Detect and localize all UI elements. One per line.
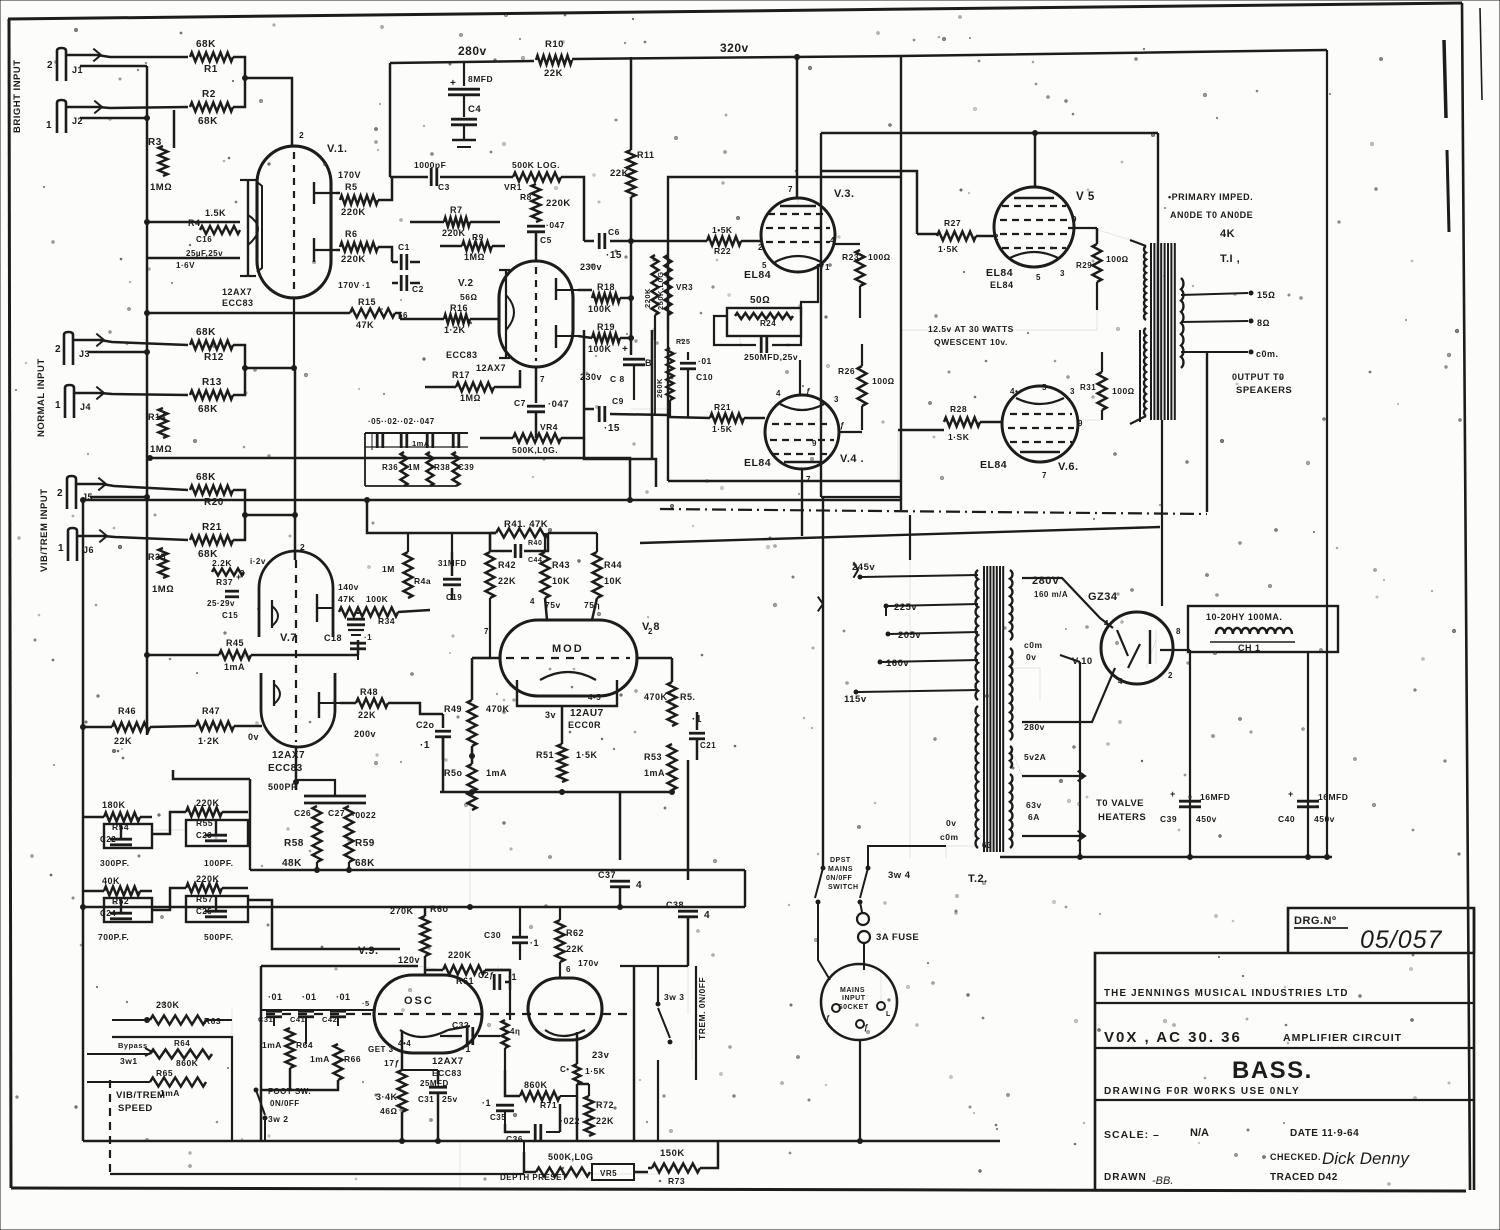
box speed control bbox=[112, 1037, 232, 1141]
svg-text:4: 4 bbox=[1104, 619, 1109, 628]
svg-text:1·5K: 1·5K bbox=[585, 1066, 606, 1076]
tube V8 envelope bbox=[500, 620, 637, 696]
svg-text:8MFD: 8MFD bbox=[468, 74, 493, 84]
svg-text:5: 5 bbox=[1036, 273, 1041, 282]
wire hum pot left bbox=[714, 316, 742, 345]
wire v10 out bbox=[1160, 649, 1190, 651]
wire bus y907 bbox=[83, 906, 745, 909]
svg-text:J6: J6 bbox=[83, 545, 94, 555]
svg-text:260K: 260K bbox=[655, 378, 664, 398]
svg-text:VR5: VR5 bbox=[600, 1169, 617, 1178]
resistor R60 270K bbox=[424, 907, 427, 916]
svg-text:5: 5 bbox=[1042, 383, 1047, 392]
svg-text:2: 2 bbox=[300, 542, 305, 552]
svg-text:1mA: 1mA bbox=[412, 439, 430, 448]
svg-text:ECC83: ECC83 bbox=[446, 350, 478, 360]
svg-text:1: 1 bbox=[58, 543, 64, 554]
svg-text:·05··02··02··047: ·05··02··02··047 bbox=[368, 417, 435, 426]
wire bus y855 bbox=[1000, 856, 1332, 858]
svg-text:R47: R47 bbox=[202, 706, 220, 716]
transformer T1 primary coil bbox=[1144, 246, 1146, 320]
wire J3 tip bbox=[74, 340, 188, 345]
resistor R44 10K bbox=[593, 552, 602, 598]
svg-text:230K: 230K bbox=[156, 1000, 180, 1010]
wire left rail x83 bbox=[82, 500, 85, 1141]
svg-text:+: + bbox=[1170, 789, 1176, 799]
tube V1 grid bars bbox=[313, 182, 315, 204]
resistor R51 1.5K bbox=[561, 706, 564, 744]
wire V7 anode row bbox=[147, 654, 219, 657]
svg-text:7: 7 bbox=[1042, 471, 1047, 480]
wire heater bottom bbox=[1022, 835, 1085, 837]
svg-text:·047: ·047 bbox=[548, 399, 569, 410]
svg-text:R10: R10 bbox=[545, 39, 564, 50]
svg-text:R72: R72 bbox=[596, 1100, 614, 1110]
svg-text:C40: C40 bbox=[1278, 814, 1295, 824]
tube V7 cathode bbox=[271, 600, 273, 628]
svg-text:C36: C36 bbox=[506, 1134, 523, 1144]
wire tap 225V bbox=[888, 604, 978, 606]
svg-text:V.4 .: V.4 . bbox=[840, 453, 864, 465]
wire HT to x1327 bbox=[1326, 50, 1328, 855]
svg-text:100Ω: 100Ω bbox=[1106, 254, 1129, 264]
capacitor C32 .1 bbox=[448, 1037, 462, 1039]
svg-text:DRAWN: DRAWN bbox=[1104, 1172, 1147, 1183]
svg-text:220K: 220K bbox=[448, 950, 472, 960]
jack J2 bbox=[57, 100, 66, 133]
wire sw4 to 0v bbox=[868, 846, 946, 868]
svg-text:R46: R46 bbox=[118, 706, 136, 716]
svg-text:280v: 280v bbox=[458, 44, 487, 58]
wire v2 plate upper bbox=[578, 289, 592, 292]
resistor R72 22K bbox=[585, 1096, 594, 1136]
svg-text:HEATERS: HEATERS bbox=[1098, 812, 1146, 823]
svg-text:TREM. 0N/0FF: TREM. 0N/0FF bbox=[697, 977, 707, 1040]
resistor R66 1M bbox=[334, 1044, 343, 1080]
svg-text:12AX7: 12AX7 bbox=[272, 750, 305, 761]
wire fuse to plug bbox=[863, 962, 865, 970]
wire choke out right bbox=[1307, 652, 1309, 855]
svg-text:R59: R59 bbox=[355, 838, 375, 849]
svg-text:68K: 68K bbox=[355, 858, 375, 869]
capacitor C39 16MFD bbox=[1179, 800, 1201, 803]
svg-text:V.6.: V.6. bbox=[1058, 461, 1079, 473]
wire footswitch bbox=[264, 1120, 266, 1141]
svg-text:·01: ·01 bbox=[302, 992, 317, 1002]
svg-text:100K: 100K bbox=[588, 304, 612, 314]
svg-text:R21: R21 bbox=[202, 522, 222, 533]
wire grid riser bbox=[357, 640, 360, 655]
tube V9b envelope bbox=[528, 978, 602, 1040]
wire V7 grid feed bbox=[245, 367, 295, 370]
svg-text:R58: R58 bbox=[284, 838, 304, 849]
svg-text:1·6V: 1·6V bbox=[176, 261, 195, 270]
svg-text:C16: C16 bbox=[196, 235, 212, 244]
resistor R31 100 bbox=[1078, 419, 1100, 421]
svg-text:500K LOG.: 500K LOG. bbox=[512, 160, 560, 170]
svg-text:VIB/TREM INPUT: VIB/TREM INPUT bbox=[39, 488, 50, 572]
svg-text:200v: 200v bbox=[354, 729, 376, 739]
wire depth row bbox=[523, 1141, 525, 1152]
svg-text:·15: ·15 bbox=[604, 423, 620, 434]
svg-text:4: 4 bbox=[1118, 677, 1123, 686]
tube V4 EL84 bbox=[765, 395, 839, 469]
tube V9a envelope OSC bbox=[374, 975, 482, 1053]
svg-text:700P.F.: 700P.F. bbox=[98, 932, 129, 942]
svg-text:R3: R3 bbox=[148, 137, 162, 148]
svg-text:C35: C35 bbox=[490, 1113, 506, 1122]
wire rail A y458 bbox=[150, 458, 630, 500]
svg-text:22K: 22K bbox=[498, 576, 516, 586]
wire T1 sec tap2 bbox=[1181, 321, 1248, 322]
svg-text:R7: R7 bbox=[450, 205, 463, 215]
wire V8 bottom bus bbox=[440, 791, 672, 794]
wire y497 stub bbox=[821, 496, 901, 498]
resistor R49 470K bbox=[468, 700, 477, 746]
resistor R12 68K bbox=[190, 341, 233, 350]
title row line 1 bbox=[1095, 1002, 1474, 1004]
svg-text:50Ω: 50Ω bbox=[750, 295, 770, 306]
svg-text:R13: R13 bbox=[202, 377, 222, 388]
tube V7 center dashed bbox=[295, 560, 297, 742]
tube V1 envelope bbox=[257, 146, 331, 298]
wire sw4 left down bbox=[818, 902, 830, 980]
svg-text:C41: C41 bbox=[290, 1015, 305, 1024]
svg-text:R65: R65 bbox=[156, 1068, 173, 1078]
wire tone right drop bbox=[248, 829, 250, 832]
svg-text:C30: C30 bbox=[484, 930, 501, 940]
svg-text:3·4K: 3·4K bbox=[376, 1092, 398, 1102]
resistor R21 1.5K bbox=[668, 417, 710, 418]
wire R61 leads bbox=[425, 969, 443, 972]
svg-text:2: 2 bbox=[47, 60, 53, 71]
svg-text:4: 4 bbox=[636, 880, 642, 891]
wire r67 bottom bbox=[401, 1112, 404, 1141]
svg-text:C42: C42 bbox=[322, 1015, 337, 1024]
svg-text:3w 3: 3w 3 bbox=[664, 992, 684, 1002]
svg-text:c0m: c0m bbox=[1024, 640, 1043, 650]
svg-text:C21: C21 bbox=[700, 741, 716, 750]
wire splitter stubs bbox=[407, 533, 409, 552]
wire J2 tip bbox=[67, 107, 188, 108]
svg-text:3w 2: 3w 2 bbox=[268, 1114, 288, 1124]
svg-text:230v: 230v bbox=[580, 372, 602, 382]
svg-text:·01: ·01 bbox=[698, 356, 712, 366]
svg-text:c0m: c0m bbox=[940, 832, 959, 842]
wire R16 bbox=[400, 318, 444, 321]
resistor RB2 1M bbox=[427, 452, 434, 486]
svg-text:47K: 47K bbox=[338, 594, 355, 604]
resistor R70 1.5K bbox=[574, 1064, 581, 1084]
svg-text:250K,L0G: 250K,L0G bbox=[656, 271, 665, 310]
wire C26 C27 top bbox=[296, 780, 335, 796]
wire trem col x696 bbox=[691, 1040, 693, 1060]
svg-text:2.2K: 2.2K bbox=[212, 558, 232, 568]
svg-text:C31: C31 bbox=[258, 1015, 273, 1024]
resistor R13 68K bbox=[190, 391, 233, 400]
svg-text:SPEAKERS: SPEAKERS bbox=[1236, 385, 1292, 396]
svg-text:0N/0FF: 0N/0FF bbox=[270, 1099, 300, 1108]
tube V7 grid bar lower bbox=[318, 692, 320, 718]
svg-text:R36: R36 bbox=[382, 463, 398, 472]
svg-text:C39: C39 bbox=[1160, 814, 1177, 824]
svg-text:CHECKED.: CHECKED. bbox=[1270, 1152, 1321, 1162]
svg-text:68K: 68K bbox=[198, 404, 218, 415]
svg-text:46Ω: 46Ω bbox=[380, 1106, 397, 1116]
svg-text:V.10: V.10 bbox=[1072, 656, 1093, 667]
resistor R3 1M bbox=[159, 146, 168, 176]
choke CH1 coil bbox=[1216, 628, 1292, 634]
svg-text:1·2K: 1·2K bbox=[198, 736, 220, 746]
transformer T2 sec coil HT bbox=[1010, 570, 1012, 640]
svg-text:C18: C18 bbox=[324, 633, 342, 643]
svg-text:R43: R43 bbox=[552, 560, 570, 570]
svg-text:ƒ: ƒ bbox=[840, 421, 845, 430]
wire y655 to tube bbox=[295, 655, 297, 673]
wire V3 top pin bbox=[797, 198, 799, 206]
svg-text:3v: 3v bbox=[545, 710, 556, 720]
svg-text:860K: 860K bbox=[176, 1058, 199, 1068]
svg-text:7: 7 bbox=[484, 627, 489, 636]
svg-text:GZ34: GZ34 bbox=[1088, 591, 1118, 603]
wire r72 col bbox=[576, 1084, 579, 1141]
svg-text:V.7: V.7 bbox=[280, 632, 297, 644]
resistor R27 1.5K bbox=[917, 233, 937, 236]
capacitor C9 .15 bbox=[584, 408, 594, 411]
svg-text:C27: C27 bbox=[328, 808, 345, 818]
svg-text:500K,L0G.: 500K,L0G. bbox=[512, 445, 558, 455]
svg-text:0v: 0v bbox=[248, 732, 259, 742]
resistor R46 22K bbox=[112, 723, 150, 732]
svg-text:500PF: 500PF bbox=[268, 782, 297, 792]
wire screen bus v5 bbox=[901, 310, 1097, 330]
capacitor C15 25MFD bbox=[225, 590, 239, 593]
svg-text:Bypass: Bypass bbox=[118, 1041, 148, 1050]
svg-text:1·2K: 1·2K bbox=[444, 325, 466, 335]
capacitor C25 500PF bbox=[186, 896, 248, 922]
resistor R16 1.2K bbox=[444, 315, 470, 324]
resistor R25 260K bbox=[651, 330, 654, 460]
svg-text:R38: R38 bbox=[434, 463, 450, 472]
svg-text:·01: ·01 bbox=[336, 992, 351, 1002]
capacitor C40 16MFD bbox=[1297, 800, 1319, 803]
svg-text:DPST: DPST bbox=[830, 857, 851, 864]
svg-text:R14: R14 bbox=[148, 412, 166, 422]
capacitor C1 bbox=[400, 254, 403, 270]
svg-text:0v: 0v bbox=[1026, 652, 1036, 662]
svg-text:R9: R9 bbox=[472, 232, 484, 242]
svg-text:220K: 220K bbox=[643, 288, 652, 308]
svg-text:1MΩ: 1MΩ bbox=[460, 393, 481, 403]
wire cut feed bbox=[173, 770, 250, 779]
choke box bbox=[1188, 606, 1338, 652]
svg-text:4ƞ: 4ƞ bbox=[510, 1027, 520, 1036]
wire c39 top bbox=[1060, 655, 1080, 662]
title row line 3 bbox=[1095, 1099, 1474, 1101]
svg-text:500PF.: 500PF. bbox=[204, 932, 233, 942]
svg-text:R6o: R6o bbox=[430, 904, 449, 914]
svg-text:R73: R73 bbox=[668, 1176, 685, 1186]
svg-text:7: 7 bbox=[806, 475, 811, 484]
resistor R6 220K bbox=[340, 243, 378, 252]
resistor R18 100K bbox=[592, 294, 620, 303]
svg-text:1·5K: 1·5K bbox=[712, 424, 733, 434]
cap row C14 bbox=[452, 432, 455, 448]
hum pot box 50ohm bbox=[727, 308, 801, 336]
svg-text:R51: R51 bbox=[536, 750, 554, 760]
capacitor C5 .047 bbox=[527, 225, 545, 228]
svg-text:2: 2 bbox=[299, 130, 304, 140]
svg-text:0UTPUT T0: 0UTPUT T0 bbox=[1232, 372, 1285, 382]
svg-text:1mA: 1mA bbox=[262, 1040, 282, 1050]
svg-text:THE JENNINGS MUSICAL INDUSTRIE: THE JENNINGS MUSICAL INDUSTRIES LTD bbox=[1104, 988, 1349, 999]
wire cap row bus bbox=[365, 432, 468, 434]
svg-text:C31: C31 bbox=[418, 1095, 434, 1104]
wire choke node left bbox=[1189, 650, 1191, 855]
svg-text:C7: C7 bbox=[514, 398, 526, 408]
capacitor C23 100PF bbox=[186, 820, 248, 846]
svg-text:22K: 22K bbox=[566, 944, 584, 954]
svg-text:170V: 170V bbox=[338, 280, 360, 290]
svg-text:·1: ·1 bbox=[362, 280, 371, 290]
svg-text:QWESCENT 10v.: QWESCENT 10v. bbox=[934, 337, 1008, 347]
resistor R26 100 bbox=[858, 366, 867, 406]
svg-text:4•4: 4•4 bbox=[398, 1039, 411, 1048]
wire J1 shunt bbox=[80, 65, 147, 68]
title row line 2 bbox=[1095, 1047, 1474, 1049]
svg-text:ECC83: ECC83 bbox=[432, 1068, 462, 1078]
svg-text:C10: C10 bbox=[696, 372, 713, 382]
svg-text:OSC: OSC bbox=[404, 995, 434, 1007]
svg-text:R64: R64 bbox=[174, 1039, 190, 1048]
svg-text:R22: R22 bbox=[714, 246, 731, 256]
wire R45 to grid bbox=[251, 654, 358, 657]
resistor R52 470K bbox=[668, 682, 677, 726]
svg-text:68K: 68K bbox=[196, 472, 216, 483]
resistor R43 10K bbox=[541, 552, 550, 598]
svg-text:7: 7 bbox=[788, 185, 793, 194]
svg-text:2: 2 bbox=[57, 488, 63, 499]
capacitor C4 8MFD bbox=[463, 62, 465, 86]
svg-text:NORMAL INPUT: NORMAL INPUT bbox=[36, 358, 47, 437]
svg-text:470K: 470K bbox=[486, 704, 510, 714]
wire V1 bottom pin bbox=[293, 298, 295, 368]
wire R49 R50 join bbox=[471, 746, 474, 764]
resistor R62 22K bbox=[556, 920, 565, 962]
wire anode V3 riser bbox=[796, 57, 799, 198]
wire tap 205V bbox=[890, 632, 978, 634]
svg-text:05/057: 05/057 bbox=[1360, 926, 1443, 954]
wire grid line v9 bbox=[348, 1009, 374, 1011]
svg-text:100Ω: 100Ω bbox=[872, 376, 895, 386]
svg-text:+: + bbox=[622, 344, 628, 355]
svg-text:220K: 220K bbox=[546, 198, 571, 209]
svg-text:860K: 860K bbox=[524, 1080, 548, 1090]
svg-text:2: 2 bbox=[994, 233, 999, 242]
wire drop x470 bbox=[469, 792, 471, 907]
capacitor C29 .1 bbox=[497, 966, 499, 990]
wire R1 R2 join bbox=[233, 57, 245, 107]
wire J6 tip bbox=[78, 536, 188, 540]
svg-text:1MΩ: 1MΩ bbox=[150, 444, 172, 455]
svg-text:4: 4 bbox=[776, 389, 781, 398]
svg-text:75ƞ: 75ƞ bbox=[584, 600, 600, 610]
svg-text:R62: R62 bbox=[566, 928, 584, 938]
wire R12 R13 join bbox=[233, 345, 245, 395]
svg-text:C23: C23 bbox=[196, 831, 212, 840]
wire cap bank bus bbox=[261, 1009, 360, 1011]
svg-text:280v: 280v bbox=[1024, 722, 1045, 732]
wire V3 cathode bbox=[801, 264, 818, 316]
svg-text:AMPLIFIER CIRCUIT: AMPLIFIER CIRCUIT bbox=[1283, 1032, 1402, 1044]
capacitor C2 bbox=[400, 275, 403, 291]
svg-text:R28: R28 bbox=[950, 404, 967, 414]
tube V2 grids bbox=[555, 278, 557, 300]
svg-text:N/A: N/A bbox=[1190, 1127, 1209, 1139]
svg-text:R19: R19 bbox=[597, 322, 615, 332]
wire divider x901 bbox=[900, 56, 902, 510]
svg-text:1mA: 1mA bbox=[224, 662, 245, 672]
svg-text:450v: 450v bbox=[1314, 814, 1335, 824]
capacitor C44 bypass bbox=[490, 532, 496, 535]
svg-text:0N/0FF: 0N/0FF bbox=[826, 875, 853, 882]
svg-text:·1: ·1 bbox=[462, 1044, 471, 1054]
svg-text:100K: 100K bbox=[588, 344, 612, 354]
svg-text:1MΩ: 1MΩ bbox=[150, 182, 172, 193]
resistor R47 1.2K bbox=[196, 722, 234, 731]
svg-text:TRACED D42: TRACED D42 bbox=[1270, 1172, 1338, 1183]
capacitor C7 .047 bbox=[527, 405, 545, 408]
resistor R15 47K bbox=[350, 309, 395, 318]
svg-text:48K: 48K bbox=[282, 858, 302, 869]
svg-text:17ƒ: 17ƒ bbox=[384, 1058, 400, 1068]
wire plate loads bbox=[378, 178, 392, 200]
svg-text:R48: R48 bbox=[360, 687, 378, 697]
svg-text:VR4: VR4 bbox=[540, 422, 558, 432]
svg-text:C2: C2 bbox=[412, 284, 424, 294]
svg-text:R15: R15 bbox=[358, 297, 376, 307]
resistor R5 220K bbox=[340, 196, 378, 205]
svg-text:9: 9 bbox=[1072, 215, 1077, 224]
resistor R28 1.5K bbox=[898, 429, 944, 432]
capacitor C17 blob bbox=[347, 618, 365, 621]
resistor R20 68K bbox=[190, 486, 233, 495]
resistor R10 22K bbox=[536, 56, 572, 65]
wire R11 down bbox=[630, 197, 633, 241]
svg-text:C1: C1 bbox=[398, 242, 410, 252]
resistor R11 22K bbox=[630, 57, 633, 150]
wire to V7 grid2 bbox=[245, 514, 295, 517]
svg-text:4K: 4K bbox=[1220, 228, 1235, 240]
wire left rail drop bbox=[825, 867, 827, 869]
wire tone row1 link bbox=[152, 812, 186, 834]
wire cathode heater drop bbox=[1079, 662, 1081, 855]
svg-text:R31: R31 bbox=[1080, 383, 1096, 392]
svg-text:1mA: 1mA bbox=[644, 768, 665, 778]
svg-text:115v: 115v bbox=[844, 694, 867, 705]
fuse F1 3A bbox=[860, 902, 862, 912]
tube V9a cathode bbox=[400, 1030, 448, 1037]
wire J5 shunt bbox=[90, 496, 147, 499]
wire R19 right bbox=[578, 336, 592, 338]
resistor R64 1M bbox=[286, 1028, 295, 1068]
svg-text:100Ω: 100Ω bbox=[1112, 386, 1135, 396]
svg-text:C39: C39 bbox=[458, 463, 474, 472]
svg-text:C9: C9 bbox=[612, 396, 624, 406]
wire rail to V8 pins bbox=[545, 598, 547, 620]
svg-text:280V: 280V bbox=[1032, 575, 1060, 587]
resistor R7 220K bbox=[444, 218, 470, 227]
